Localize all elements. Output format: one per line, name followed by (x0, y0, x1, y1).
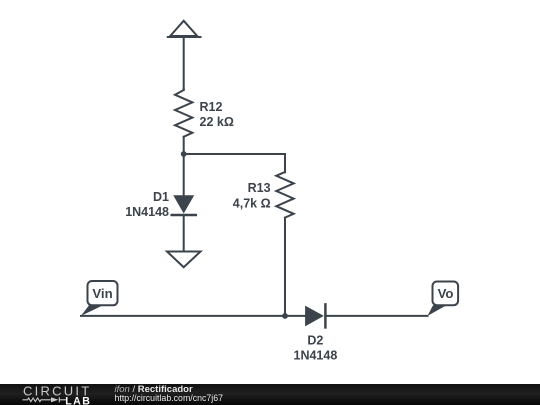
node junction (181, 151, 187, 157)
svg-text:R12: R12 (200, 100, 223, 114)
net flag Vin (81, 281, 118, 316)
URL (115, 393, 224, 403)
diode D1 (172, 195, 196, 215)
svg-text:D1: D1 (153, 190, 169, 204)
resistor R12 (175, 89, 192, 137)
svg-text:4,7k Ω: 4,7k Ω (233, 196, 271, 210)
svg-text:Vin: Vin (92, 286, 112, 301)
net flag Vo (428, 282, 459, 316)
svg-text:1N4148: 1N4148 (294, 349, 338, 363)
power supply V+ (168, 21, 201, 37)
diode D2 (305, 304, 325, 327)
wire (183, 216, 185, 252)
svg-text:Vo: Vo (438, 286, 454, 301)
svg-text:D2: D2 (307, 334, 323, 348)
title: ifon / Rectificador (115, 384, 193, 395)
CircuitLab logo (0, 384, 100, 405)
ground (167, 252, 201, 268)
wire (81, 315, 305, 317)
wire (284, 218, 286, 316)
svg-text:22 kΩ: 22 kΩ (200, 115, 234, 129)
svg-text:R13: R13 (248, 181, 271, 195)
wire (183, 37, 185, 90)
wire (325, 315, 427, 317)
footer bar (0, 384, 540, 405)
svg-text:LAB: LAB (65, 395, 91, 405)
node junction (282, 313, 288, 319)
svg-text:1N4148: 1N4148 (125, 205, 169, 219)
wire (184, 154, 285, 172)
logo resistor/diode line (23, 397, 68, 402)
resistor R13 (276, 172, 293, 218)
wire (183, 137, 185, 196)
